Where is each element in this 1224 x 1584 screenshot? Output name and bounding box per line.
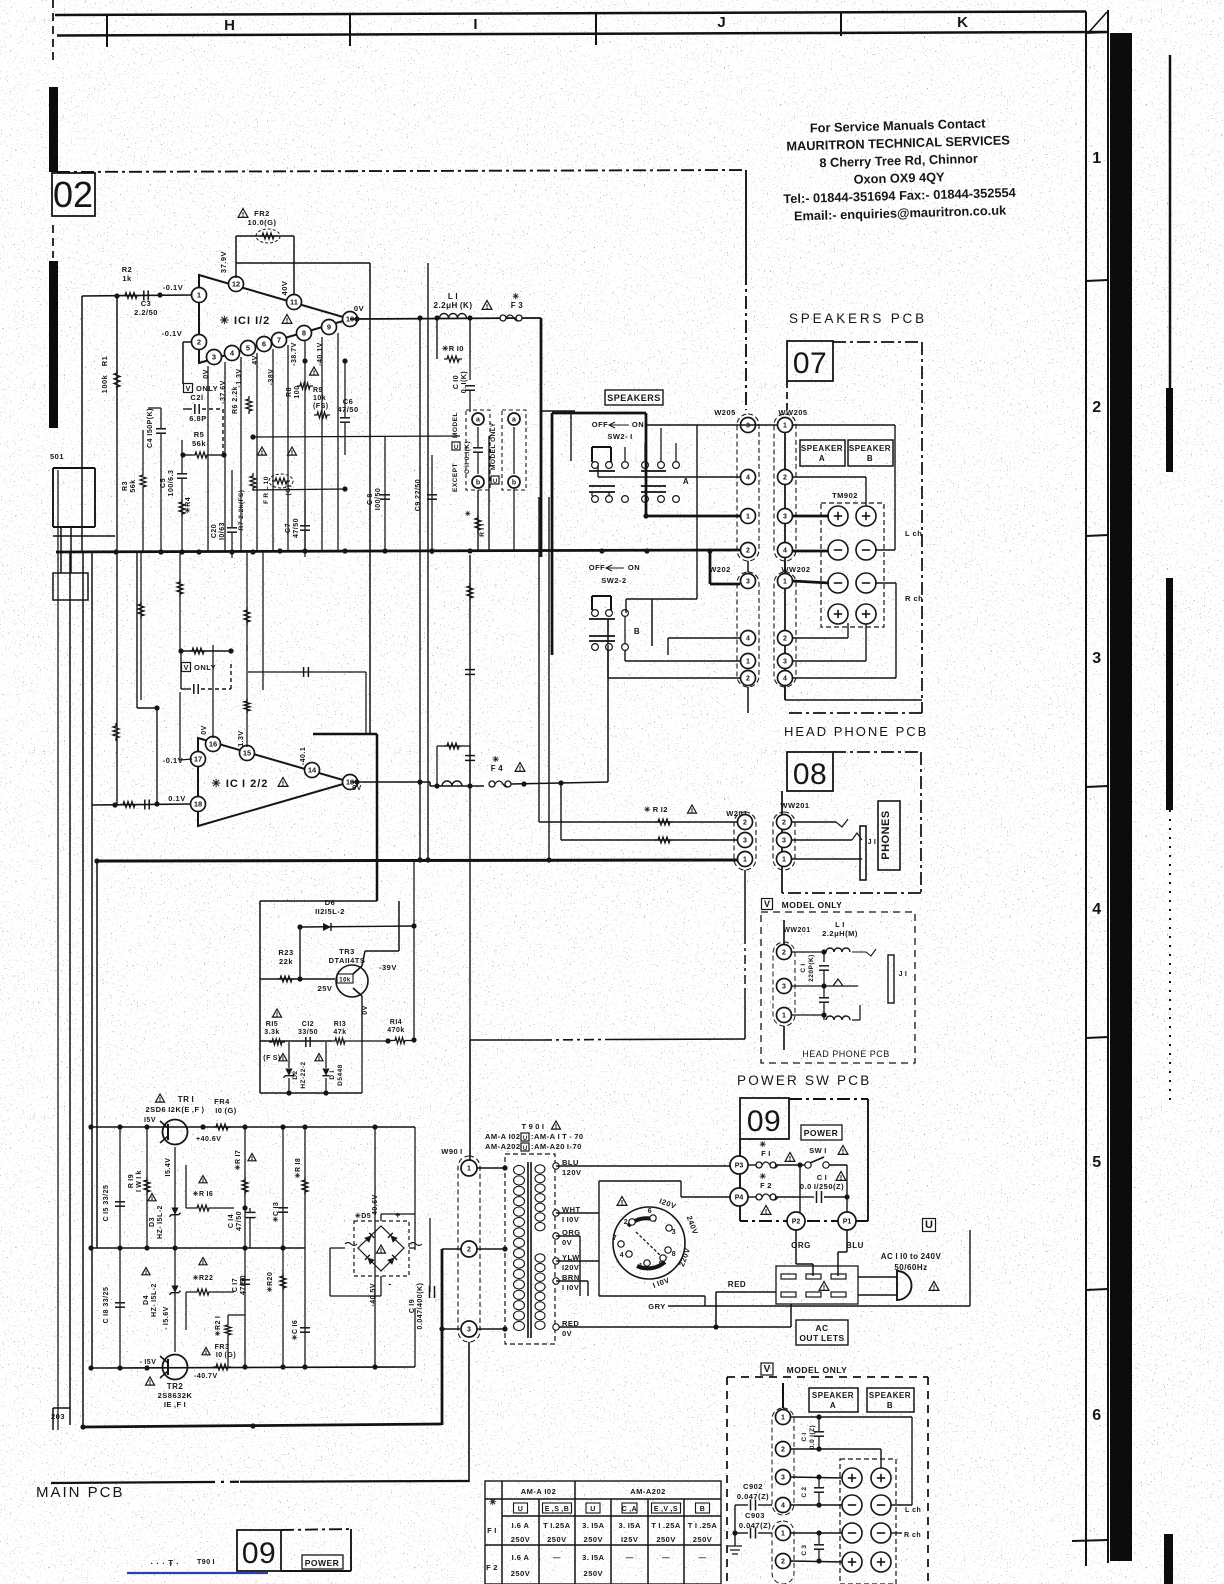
resistor amp2 feedback row <box>178 648 233 654</box>
svg-text:2: 2 <box>743 820 747 827</box>
wire TR1 bus y1127 <box>88 1124 415 1129</box>
node fuse table <box>485 1481 721 1584</box>
svg-text:4: 4 <box>620 1252 624 1259</box>
svg-text:8: 8 <box>302 329 306 338</box>
svg-text:4V: 4V <box>252 355 259 365</box>
capacitor C10 <box>453 359 475 412</box>
svg-text:-0.1V: -0.1V <box>163 283 183 292</box>
svg-text:C3: C3 <box>141 299 152 308</box>
wire below-bus column x247 <box>244 552 250 651</box>
transistor Q TR3 <box>318 901 399 1042</box>
wire speakers row y678 <box>608 645 896 678</box>
node V-ONLY C22 <box>181 651 231 694</box>
resistor R18 <box>294 1127 308 1248</box>
svg-text:0V: 0V <box>354 304 364 313</box>
svg-text:08: 08 <box>793 758 827 791</box>
wire headphone ground route <box>470 1039 745 1160</box>
svg-text:✳R I7: ✳R I7 <box>234 1150 242 1171</box>
wire left vertical x83 <box>82 551 84 1427</box>
svg-text:I20V: I20V <box>562 1263 579 1272</box>
svg-text:3: 3 <box>781 1475 785 1482</box>
svg-text:✳ IC I 2/2: ✳ IC I 2/2 <box>212 778 269 790</box>
svg-text:1: 1 <box>743 857 747 864</box>
svg-text:I.6 A: I.6 A <box>512 1521 530 1530</box>
svg-text:0V: 0V <box>203 369 210 379</box>
svg-text:C II 0.I(K): C II 0.I(K) <box>464 441 471 474</box>
node V-ONLY C21 <box>183 384 223 456</box>
node connector WW205 <box>774 408 808 561</box>
svg-text:-39V: -39V <box>379 963 397 972</box>
node headphone jack J1 <box>792 819 876 880</box>
svg-text:R5: R5 <box>194 430 205 439</box>
node V-model speakers box <box>727 1377 928 1584</box>
node switch SW1 <box>805 1146 848 1213</box>
wire below-bus column x263 <box>262 552 264 690</box>
svg-text:I I0V: I I0V <box>562 1283 579 1292</box>
svg-text:F I: F I <box>761 1149 771 1158</box>
node AC OUTLETS label <box>796 1320 848 1345</box>
svg-text:47/50: 47/50 <box>236 1211 243 1231</box>
svg-text:100k: 100k <box>100 374 109 393</box>
svg-text:5: 5 <box>659 1261 663 1268</box>
svg-text:47/50: 47/50 <box>293 518 300 538</box>
svg-text:T90 I: T90 I <box>197 1559 215 1566</box>
resistor R10 <box>437 318 470 362</box>
svg-text:HEAD PHONE PCB: HEAD PHONE PCB <box>802 1049 890 1059</box>
resistor R5 <box>180 430 226 458</box>
svg-text:-38V: -38V <box>268 369 275 386</box>
svg-text:40V: 40V <box>280 281 289 296</box>
svg-text:3: 3 <box>782 838 786 845</box>
node V-model headphone box <box>761 912 915 1063</box>
svg-text:3. I5A: 3. I5A <box>582 1521 605 1530</box>
node service-contact address text <box>781 115 1017 224</box>
resistor FR3 <box>202 1344 236 1370</box>
inductor L1 <box>434 292 473 318</box>
node HEAD PHONE PCB small title <box>802 1049 890 1059</box>
svg-text:2: 2 <box>1092 399 1101 416</box>
svg-text:C 3: C 3 <box>801 1544 808 1555</box>
svg-text:RED: RED <box>728 1280 746 1289</box>
node connector W202 <box>709 561 759 687</box>
svg-text:B: B <box>700 1506 706 1513</box>
capacitor C17 <box>232 1248 250 1368</box>
svg-text:-0.1V: -0.1V <box>162 329 182 338</box>
node SPEAKERS PCB title <box>789 311 927 326</box>
svg-text:TR3: TR3 <box>339 947 355 956</box>
svg-text:9: 9 <box>327 323 331 332</box>
capacitor C14 <box>228 1205 256 1248</box>
wire vertical x539 <box>538 497 540 822</box>
inductor L amp2 <box>442 781 462 786</box>
svg-text:—: — <box>553 1553 561 1562</box>
resistor R6 <box>232 386 252 414</box>
svg-text:1: 1 <box>1092 150 1101 167</box>
svg-text:P1: P1 <box>843 1219 852 1226</box>
svg-text:2: 2 <box>624 1219 628 1226</box>
svg-text:SW I: SW I <box>809 1146 827 1155</box>
node POWER SW PCB title <box>737 1073 871 1088</box>
svg-text:5: 5 <box>1092 1154 1101 1171</box>
node T901 labels <box>485 1121 584 1152</box>
svg-text:4: 4 <box>1092 901 1101 918</box>
wire RED lead power <box>713 1280 776 1330</box>
svg-text:—: — <box>626 1553 634 1562</box>
svg-text:10k: 10k <box>313 395 326 402</box>
svg-text:7: 7 <box>613 1235 617 1242</box>
svg-text:3: 3 <box>746 423 750 430</box>
wire selector routing <box>556 1166 970 1311</box>
diode D3 zener <box>148 1147 181 1248</box>
node 501 box <box>50 452 95 527</box>
svg-text:MAIN PCB: MAIN PCB <box>36 1484 125 1501</box>
capacitor C3 <box>134 291 158 318</box>
node MAIN PCB title <box>36 1484 125 1501</box>
svg-text:✳R2 I: ✳R2 I <box>214 1316 222 1337</box>
wire below-bus column x141 <box>138 552 144 700</box>
svg-text:56k: 56k <box>192 439 206 448</box>
svg-text:I: I <box>473 16 478 33</box>
resistor R1 <box>100 296 120 420</box>
svg-text:6: 6 <box>262 340 266 349</box>
wire speakers row y661 <box>625 624 866 661</box>
wire right verticals power <box>375 1127 415 1367</box>
node connector P4 <box>730 1188 748 1206</box>
wire speakers row y477 <box>598 465 866 506</box>
svg-text:TM902: TM902 <box>832 491 858 500</box>
svg-text:V: V <box>764 899 770 909</box>
resistor R12 <box>539 805 745 825</box>
resistor feedback amp2 <box>434 743 472 789</box>
svg-text:Oxon OX9 4QY: Oxon OX9 4QY <box>853 169 945 187</box>
svg-text:RI4: RI4 <box>390 1019 402 1026</box>
svg-text:RI5: RI5 <box>266 1021 278 1028</box>
svg-text:09: 09 <box>242 1537 276 1570</box>
svg-text:C I: C I <box>800 963 807 972</box>
svg-text:-38.7V: -38.7V <box>291 342 298 366</box>
capacitor C8 <box>367 436 390 553</box>
capacitor C15 <box>103 1127 125 1248</box>
wire left bus B (thick) <box>56 548 740 554</box>
svg-text:MODEL: MODEL <box>452 412 459 438</box>
transistor Q TR1 <box>144 1094 221 1145</box>
svg-text:J I: J I <box>868 839 877 846</box>
capacitor C12 <box>298 1021 318 1047</box>
svg-text:I25V: I25V <box>621 1535 638 1544</box>
svg-text:POWER SW PCB: POWER SW PCB <box>737 1073 871 1088</box>
svg-text:3: 3 <box>783 514 787 521</box>
svg-text:L ch: L ch <box>905 1507 921 1514</box>
svg-text:2: 2 <box>782 820 786 827</box>
wire v-speakers pin2 <box>791 1446 881 1469</box>
svg-text:FR4: FR4 <box>214 1097 230 1106</box>
svg-text:3. I5A: 3. I5A <box>582 1553 605 1562</box>
svg-text:F 2: F 2 <box>486 1563 498 1572</box>
svg-text:2.2μH(M): 2.2μH(M) <box>822 929 858 938</box>
resistor R15 <box>263 1009 285 1062</box>
resistor R2 <box>122 265 140 299</box>
fuse F3 <box>482 292 523 321</box>
svg-text:0V: 0V <box>352 785 362 792</box>
svg-text:2: 2 <box>781 1559 785 1566</box>
svg-text:✳R22: ✳R22 <box>193 1274 214 1282</box>
inductor L2 v-model <box>792 1005 860 1020</box>
svg-text:4: 4 <box>781 1503 785 1510</box>
wire W901 links <box>477 1165 508 1331</box>
svg-text:A: A <box>819 454 825 463</box>
svg-text:56k: 56k <box>130 479 137 492</box>
ground <box>728 1533 742 1554</box>
resistor R14 <box>385 1019 416 1044</box>
svg-text:✳: ✳ <box>465 510 471 518</box>
svg-text:250V: 250V <box>693 1535 713 1544</box>
svg-text:SPEAKERS PCB: SPEAKERS PCB <box>789 311 927 326</box>
svg-text:I0/63: I0/63 <box>219 522 226 540</box>
svg-text:F I: F I <box>487 1526 497 1535</box>
node connector WW201 v-model <box>773 920 811 1050</box>
svg-text:T 9 0 I: T 9 0 I <box>521 1122 544 1131</box>
svg-text:R1: R1 <box>100 356 109 367</box>
node SPEAKER B label v-model <box>867 1388 914 1412</box>
svg-text:✳R I8: ✳R I8 <box>294 1158 302 1179</box>
svg-text:0.0 I/250(Z): 0.0 I/250(Z) <box>800 1182 844 1191</box>
svg-text:D5448: D5448 <box>337 1064 344 1086</box>
node connector a-b U-model-only <box>490 410 526 552</box>
fuse F1 <box>748 1140 806 1168</box>
node AC outlet block <box>776 1266 858 1304</box>
wire switch net leads <box>541 411 625 643</box>
svg-text:PHONES: PHONES <box>880 810 892 859</box>
node PCB-02 boundary <box>57 170 746 410</box>
svg-text:V: V <box>184 665 189 672</box>
svg-text:-40.1: -40.1 <box>300 747 307 765</box>
svg-text:IE ,F I: IE ,F I <box>164 1400 186 1409</box>
svg-text:6: 6 <box>648 1208 652 1215</box>
svg-text:EXCEPT: EXCEPT <box>452 463 459 492</box>
svg-text:-1.3V: -1.3V <box>236 368 243 387</box>
wire input net pin18 <box>92 801 192 807</box>
svg-text:47/50: 47/50 <box>240 1275 247 1295</box>
svg-text:02: 02 <box>53 174 93 215</box>
node bridge rectifier D5 <box>345 1194 422 1306</box>
resistor FR4 <box>213 1097 237 1130</box>
svg-text:C20: C20 <box>211 524 218 538</box>
resistor amp2 input R <box>120 800 149 810</box>
svg-text:HZ- I5L-2: HZ- I5L-2 <box>157 1205 164 1239</box>
node PCB number 09 box bottom <box>151 1529 351 1571</box>
svg-text:✳: ✳ <box>759 1140 766 1149</box>
svg-text:✳: ✳ <box>489 1497 497 1507</box>
svg-text:6.8P: 6.8P <box>189 414 206 423</box>
svg-text:✳D5: ✳D5 <box>355 1212 371 1220</box>
svg-text:✳ R I2: ✳ R I2 <box>644 805 668 814</box>
svg-text:1: 1 <box>746 514 750 521</box>
svg-text:14: 14 <box>308 766 317 775</box>
svg-text:(FS): (FS) <box>313 403 329 410</box>
node connector P3 <box>730 1156 748 1174</box>
svg-text:3. I5A: 3. I5A <box>618 1521 641 1530</box>
node transformer taps <box>553 1158 582 1338</box>
node connector W201 <box>726 809 756 870</box>
svg-text:C I4: C I4 <box>228 1214 235 1228</box>
svg-text:F 4: F 4 <box>491 764 503 773</box>
svg-text:✳: ✳ <box>759 1172 766 1181</box>
svg-text:3.3k: 3.3k <box>264 1029 280 1036</box>
wire speakers row y516 (thick) <box>643 443 829 519</box>
svg-text:SPEAKER: SPEAKER <box>812 1391 854 1400</box>
node connector WW201 <box>773 801 810 870</box>
node terminal block TM902 <box>821 491 884 627</box>
node L ch R ch labels <box>905 529 923 603</box>
svg-text:2: 2 <box>781 1447 785 1454</box>
svg-text:OFF: OFF <box>589 563 606 572</box>
resistor R21 <box>214 1315 245 1368</box>
svg-text:P3: P3 <box>735 1163 744 1170</box>
svg-text:R2: R2 <box>122 265 133 274</box>
svg-text:47k: 47k <box>333 1029 346 1036</box>
svg-text:10k: 10k <box>339 978 351 984</box>
svg-text:100: 100 <box>294 385 301 398</box>
diode D2 zener <box>279 1042 307 1093</box>
node connector P1 <box>838 1212 856 1230</box>
svg-text:1: 1 <box>782 857 786 864</box>
transistor Q TR2 <box>140 1355 218 1410</box>
svg-text:U: U <box>523 1146 527 1152</box>
svg-text:2: 2 <box>746 548 750 555</box>
svg-text:J I: J I <box>899 971 908 978</box>
svg-text:1: 1 <box>467 1166 471 1173</box>
svg-text:2: 2 <box>746 676 750 683</box>
wire below-bus column x180b <box>177 552 183 651</box>
svg-text:J: J <box>717 14 726 31</box>
node AC rating text <box>881 1252 942 1272</box>
resistor R3 <box>122 430 146 552</box>
wire speakers row y550 <box>707 548 828 553</box>
svg-text:3: 3 <box>672 1229 676 1236</box>
wire left bus A <box>53 535 115 537</box>
svg-text:+40.6V: +40.6V <box>196 1136 221 1143</box>
svg-text:3: 3 <box>782 984 786 991</box>
svg-text:K: K <box>957 14 969 31</box>
svg-text:C I: C I <box>817 1173 828 1182</box>
svg-text:B: B <box>887 1401 893 1410</box>
svg-text:0V: 0V <box>362 1005 369 1015</box>
wire main bus y860 (thick) <box>94 857 745 863</box>
svg-text:U: U <box>454 445 458 451</box>
wire R1 column down <box>113 420 119 804</box>
svg-text:1: 1 <box>639 1263 643 1270</box>
svg-text:470k: 470k <box>387 1027 405 1034</box>
wire mid bus y1248 <box>88 1245 305 1250</box>
svg-text:2.2μH (K): 2.2μH (K) <box>434 301 473 310</box>
capacitor C9 <box>415 455 437 554</box>
svg-text:BLU: BLU <box>846 1241 864 1250</box>
svg-text:C902: C902 <box>743 1482 763 1491</box>
svg-text:-40.7V: -40.7V <box>194 1373 218 1380</box>
svg-text:ONLY: ONLY <box>196 384 218 393</box>
wire TR2 bus y1367 <box>88 1364 415 1370</box>
svg-text:W202: W202 <box>709 565 731 574</box>
resistor R20 <box>266 1248 286 1368</box>
svg-text:0.047(Z): 0.047(Z) <box>737 1492 769 1501</box>
svg-text:AM-A I02: AM-A I02 <box>521 1487 557 1496</box>
svg-text:0.1V: 0.1V <box>168 794 185 803</box>
svg-text:1: 1 <box>781 1531 785 1538</box>
svg-text:HEAD PHONE PCB: HEAD PHONE PCB <box>784 724 928 739</box>
svg-text:C7: C7 <box>285 523 292 533</box>
svg-text::AM-A20 I-70: :AM-A20 I-70 <box>531 1142 582 1151</box>
svg-text:250V: 250V <box>511 1569 531 1578</box>
svg-text:SW2-2: SW2-2 <box>601 576 626 585</box>
svg-text:C5: C5 <box>160 478 167 488</box>
svg-text:W90 I: W90 I <box>441 1147 463 1156</box>
svg-text:4: 4 <box>783 548 787 555</box>
svg-text:R ch: R ch <box>905 594 923 603</box>
svg-text:V: V <box>764 1364 771 1375</box>
svg-text:501: 501 <box>50 452 64 461</box>
svg-text:2: 2 <box>783 636 787 643</box>
svg-text:—: — <box>662 1553 670 1562</box>
wire bridge links <box>330 1214 415 1296</box>
svg-text:1k: 1k <box>122 274 132 283</box>
svg-text:HZ- I5L-2: HZ- I5L-2 <box>151 1283 158 1317</box>
capacitor C20 <box>211 470 237 558</box>
svg-text:DTAII4TS: DTAII4TS <box>329 956 366 965</box>
node 15.4V label <box>165 1158 172 1177</box>
svg-text:I5V: I5V <box>144 1117 156 1124</box>
node connector WW202 <box>774 561 811 687</box>
diode D6 <box>297 898 416 982</box>
node POWER label box <box>801 1125 842 1140</box>
svg-text:2.2/50: 2.2/50 <box>134 308 158 317</box>
svg-text:TR2: TR2 <box>167 1382 184 1391</box>
wire ground drop x469 <box>468 1342 470 1482</box>
svg-text:H: H <box>224 17 236 34</box>
svg-text:40.6V: 40.6V <box>372 1194 379 1215</box>
svg-text:D3: D3 <box>149 1217 156 1227</box>
svg-text:A: A <box>830 1401 836 1410</box>
svg-text:0V: 0V <box>201 725 208 735</box>
node voltage labels op-amp1 <box>162 251 364 338</box>
wire amp2 out to switch <box>561 620 608 783</box>
capacitor C3 v-speakers <box>791 1530 844 1563</box>
wire long bottom bus (thick) <box>80 1423 441 1429</box>
svg-text:AC: AC <box>815 1323 828 1333</box>
node V-ONLY C4 region <box>147 408 166 555</box>
svg-text:FR2: FR2 <box>254 209 270 218</box>
svg-text:R3: R3 <box>122 481 129 491</box>
svg-text:ON: ON <box>628 563 640 572</box>
svg-text:T I .25A: T I .25A <box>651 1521 681 1530</box>
node blue underline <box>127 1572 268 1574</box>
svg-text:R I9: R I9 <box>128 1174 135 1188</box>
svg-text:3: 3 <box>783 659 787 666</box>
svg-text:U: U <box>523 1136 527 1142</box>
svg-text:09: 09 <box>747 1105 781 1138</box>
wire W201 down <box>744 870 746 1039</box>
svg-text:SW2- I: SW2- I <box>607 432 632 441</box>
svg-text:- I5.6V: - I5.6V <box>163 1306 170 1330</box>
node jack J1 v-model <box>792 955 907 1003</box>
svg-text:—: — <box>699 1553 707 1562</box>
svg-text:WW205: WW205 <box>778 408 807 417</box>
capacitor C903 <box>732 1511 772 1539</box>
capacitor C902 <box>735 1482 772 1533</box>
svg-text:12: 12 <box>232 280 240 289</box>
svg-text:E ,V ,S: E ,V ,S <box>654 1506 678 1513</box>
svg-text:250V: 250V <box>511 1535 531 1544</box>
capacitor C6 <box>337 358 358 455</box>
